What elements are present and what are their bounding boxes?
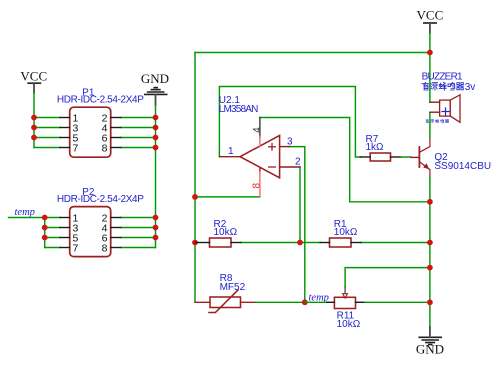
svg-text:1kΩ: 1kΩ: [366, 142, 385, 153]
junction pin8 wire on left rail: [192, 194, 198, 200]
power GND bottom symbol: [419, 327, 441, 345]
junction R2-R1-pin2 node: [297, 240, 303, 246]
svg-text:8: 8: [102, 143, 108, 155]
wire P1 right row8: [121, 147, 156, 149]
wire R7 to Q2 base: [401, 156, 411, 158]
svg-text:VCC: VCC: [417, 8, 444, 23]
potentiometer R11 body: [334, 297, 355, 308]
power VCC right symbol: [424, 23, 436, 33]
junction P1 left row5: [31, 135, 37, 141]
R7 pin left: [360, 156, 370, 158]
junction P1 right row4: [153, 125, 159, 131]
resistor R7 body: [370, 153, 390, 161]
R8 pin right: [241, 301, 256, 303]
P1 pin 5: [60, 137, 70, 139]
P1 pin 8: [111, 147, 121, 149]
op-amp pin 3 noninverting: [280, 146, 290, 148]
R1 pin left: [320, 242, 329, 244]
power VCC left symbol: [28, 83, 40, 92]
op-amp pin 8 bottom: [259, 167, 261, 171]
R11 pin left: [327, 301, 335, 303]
resistor R2 body: [210, 238, 232, 247]
wire P1 right row2: [121, 117, 156, 119]
wire P1 left row5: [34, 137, 60, 139]
wire P1 left row1: [34, 117, 60, 119]
transistor Q2 base pin: [411, 156, 419, 158]
junction R11 wiper wire: [427, 265, 433, 271]
wire buzzer bottom to collector: [429, 112, 431, 137]
transistor Q2 emitter arrowhead: [423, 163, 429, 169]
junction P2 right row2: [153, 215, 159, 221]
op-amp pin 1 output: [219, 156, 240, 158]
buzzer BUZZER1 body: [440, 100, 451, 116]
R2 pin right: [231, 242, 241, 244]
transistor Q2 collector lead: [429, 137, 431, 146]
transistor Q2 collector diagonal: [420, 147, 430, 152]
wire P2 left row7: [45, 247, 60, 249]
op-amp plus sign: [269, 144, 276, 151]
P1 pin 2: [111, 117, 121, 119]
wire P2 right row4: [121, 227, 156, 229]
P1 pin 1: [60, 117, 70, 119]
buzzer pin bottom: [430, 111, 440, 113]
wire top rail VCC horizontal: [195, 52, 430, 54]
wire P1 right row6: [121, 137, 156, 139]
transistor Q2 emitter diagonal: [420, 162, 430, 169]
svg-text:4: 4: [252, 127, 263, 133]
svg-text:HDR-IDC-2.54-2X4P: HDR-IDC-2.54-2X4P: [57, 194, 144, 205]
P2 pin 3: [60, 227, 70, 229]
thermistor R8 left wire from rail: [195, 301, 210, 303]
P2 pin 5: [60, 237, 70, 239]
svg-text:MF52: MF52: [220, 282, 246, 293]
op-amp pin 2 inverting: [280, 166, 300, 168]
R1 pin right: [351, 242, 361, 244]
wire R11 wiper from rail: [345, 268, 430, 288]
connector P1 body: [70, 107, 111, 157]
svg-text:8: 8: [252, 183, 263, 189]
svg-text:LM358AN: LM358AN: [219, 104, 258, 115]
wire R8 to temp node: [256, 301, 305, 303]
svg-text:3v: 3v: [465, 82, 476, 93]
R7 pin right: [391, 156, 402, 158]
svg-text:1: 1: [228, 146, 234, 157]
wire P1 left row7: [34, 147, 60, 149]
wire left vertical rail: [194, 53, 196, 303]
R11 wiper arrowhead: [343, 294, 348, 298]
junction P1 right row2: [153, 115, 159, 121]
svg-text:10kΩ: 10kΩ: [334, 227, 358, 238]
svg-text:VCC: VCC: [20, 69, 47, 84]
wire VCC right stem: [429, 33, 431, 102]
P2 pin 8: [111, 247, 121, 249]
wire R1 right to rail: [361, 242, 430, 244]
buzzer horn: [450, 95, 460, 123]
wire P2 left rail: [44, 218, 46, 248]
junction emitter pin4 wire: [427, 199, 433, 205]
P1 pin 4: [111, 127, 121, 129]
wire VCC left stem to P1: [33, 93, 35, 148]
svg-text:10kΩ: 10kΩ: [337, 319, 361, 330]
junction R11 right: [427, 299, 433, 305]
junction P2 right row4: [153, 225, 159, 231]
junction P1 left row1: [31, 115, 37, 121]
svg-text:2: 2: [295, 157, 301, 168]
wire P1 right row4: [121, 127, 156, 129]
wire R2 to node: [241, 242, 320, 244]
wire P2 right row8: [121, 247, 156, 249]
junction P2 left row5: [42, 235, 48, 241]
junction VCC top wire: [427, 50, 433, 56]
svg-text:SS9014CBU: SS9014CBU: [434, 161, 491, 172]
wire P2 left row3: [45, 227, 60, 229]
svg-text:3: 3: [287, 136, 293, 147]
op-amp minus sign: [269, 166, 276, 168]
resistor R1 body: [330, 238, 352, 247]
P1 pin 6: [111, 137, 121, 139]
wire op-amp output up and over to R7: [219, 87, 360, 158]
svg-text:7: 7: [73, 143, 79, 155]
svg-text:8: 8: [102, 243, 108, 255]
wire P2 left row1: [45, 217, 60, 219]
buzzer pin top: [430, 101, 440, 103]
R2 pin left: [196, 242, 210, 244]
junction P2 left row1: [42, 215, 48, 221]
junction P2 left row3: [42, 225, 48, 231]
junction R1 right: [427, 240, 433, 246]
wire R11 right to rail: [365, 301, 430, 303]
P2 pin 1: [60, 217, 70, 219]
wire op-amp pin3 down to temp node: [290, 147, 305, 303]
junction R2 left on rail: [192, 240, 198, 246]
wire P1 left row3: [34, 127, 60, 129]
wire op-amp pin8 to left rail: [195, 196, 260, 198]
transistor Q2 base bar: [418, 147, 420, 167]
wire P2 right row2: [121, 217, 156, 219]
svg-text:temp: temp: [15, 207, 35, 218]
svg-text:HDR-IDC-2.54-2X4P: HDR-IDC-2.54-2X4P: [57, 95, 144, 106]
op-amp U2.1 body: [240, 135, 280, 177]
wire op-amp pin4 to emitter rail: [260, 118, 430, 202]
P2 pin 6: [111, 237, 121, 239]
P2 pin 4: [111, 227, 121, 229]
wire P2 right row6: [121, 237, 156, 239]
buzzer plus mark: [442, 108, 449, 115]
connector P2 body: [70, 207, 111, 257]
buzzer tiny chinese caption: [426, 119, 449, 123]
P1 pin 3: [60, 127, 70, 129]
wire temp node to R11: [305, 301, 327, 303]
wire GND rail right of P1 P2: [155, 105, 157, 248]
svg-text:10kΩ: 10kΩ: [214, 227, 238, 238]
junction P2 right row6: [153, 235, 159, 241]
P1 pin 7: [60, 147, 70, 149]
thermistor R8 body: [210, 297, 241, 308]
thermistor R8 diagonal stroke: [209, 290, 238, 313]
P2 pin 7: [60, 247, 70, 249]
wire temp to P2: [9, 217, 45, 219]
junction P1 right row8: [153, 145, 159, 151]
transistor Q2 emitter lead: [429, 170, 431, 177]
junction P1 right row6: [153, 135, 159, 141]
svg-text:GND: GND: [141, 71, 169, 86]
op-amp pin 4 top: [259, 118, 261, 138]
svg-text:GND: GND: [416, 341, 444, 356]
wire emitter down to GND: [429, 177, 431, 328]
power GND top symbol: [145, 88, 167, 105]
P2 pin 2: [111, 217, 121, 219]
svg-text:BUZZER1: BUZZER1: [422, 72, 463, 83]
R11 pin right: [356, 301, 365, 303]
junction temp node: [302, 299, 308, 305]
junction P1 left row3: [31, 125, 37, 131]
svg-text:7: 7: [73, 243, 79, 255]
wire op-amp pin2 down to R2-R1 node: [299, 167, 301, 243]
wire P2 left row5: [45, 237, 60, 239]
